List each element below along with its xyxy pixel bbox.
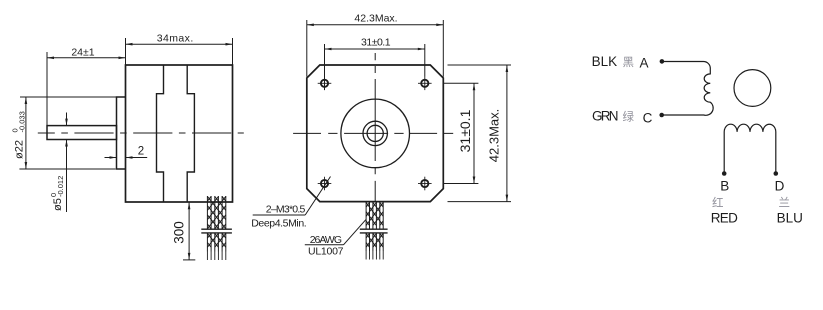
dim 34max line (126, 43, 233, 45)
bundle hatch (left view) (207, 197, 225, 248)
dim 31±0.1 top: extension lines (324, 44, 326, 90)
svg-text:31±0.1: 31±0.1 (361, 37, 391, 49)
dim 31±0.1 top line (325, 48, 425, 50)
centerline (left view) (38, 132, 244, 134)
svg-text:34max.: 34max. (157, 33, 194, 45)
dim ø22 line (25, 97, 27, 169)
motor body outline (side view) (126, 65, 233, 202)
bundle hatch (front view) (366, 203, 383, 248)
bundle break lines (left view) (201, 228, 232, 230)
svg-text:C: C (643, 111, 653, 126)
dim 300 line (188, 202, 190, 260)
terminal dot C (659, 113, 664, 118)
wire ends (front view) (366, 251, 383, 260)
stator/end-cap internal profile right (187, 65, 194, 202)
rotor circle (734, 70, 771, 107)
svg-text:GRN: GRN (592, 109, 619, 124)
dim 34max extension lines (125, 38, 127, 65)
terminal dot D (774, 171, 779, 176)
svg-text:绿: 绿 (623, 110, 635, 124)
front pilot boss (117, 97, 126, 169)
svg-text:2–M3*0.5: 2–M3*0.5 (266, 204, 306, 216)
mounting hole BR (421, 180, 428, 187)
svg-text:2: 2 (138, 146, 144, 158)
pilot boss circle Ø22 (341, 99, 410, 168)
svg-text:B: B (720, 178, 729, 193)
dim text 42.3Max right (rotated) (486, 109, 501, 162)
svg-text:红: 红 (712, 197, 724, 210)
svg-text:A: A (640, 56, 649, 71)
mounting hole TL (321, 80, 328, 87)
square flange outline with chamfers (307, 65, 444, 202)
bundle break lines (front view) (360, 228, 388, 230)
svg-text:BLK: BLK (592, 54, 618, 69)
dim 42.3Max top: extension lines (306, 20, 308, 77)
dim 42.3Max right line (506, 65, 508, 202)
svg-text:ø22: ø22 (13, 140, 25, 159)
svg-text:-0.033: -0.033 (18, 111, 27, 132)
mounting hole BL (321, 180, 328, 187)
dim ø22 extension lines (20, 96, 117, 98)
dim text 300 (rotated) (172, 221, 187, 244)
dim 300 bottom extension (183, 259, 195, 261)
mounting hole TR (421, 80, 428, 87)
dim 2 (boss thickness) arrows (105, 157, 117, 159)
svg-text:UL1007: UL1007 (308, 246, 344, 258)
svg-text:BLU: BLU (777, 210, 803, 225)
svg-text:300: 300 (172, 221, 187, 244)
dim text 31±0.1 right (rotated) (457, 109, 473, 152)
svg-text:D: D (775, 178, 785, 193)
terminal dot B (722, 171, 727, 176)
svg-text:31±0.1: 31±0.1 (457, 109, 473, 152)
wire bundle (front view) (366, 202, 383, 251)
coil B-D (phase 2) (724, 124, 776, 173)
terminal dot A (660, 59, 665, 64)
svg-text:Deep4.5Min.: Deep4.5Min. (251, 217, 307, 229)
centerline horizontal (293, 132, 453, 134)
dim text ø22 0/-0.033 (rotated) (11, 111, 27, 159)
svg-text:-0.012: -0.012 (56, 176, 65, 197)
shaft (47, 126, 117, 140)
dim 42.3Max top line (307, 24, 444, 26)
dim text ø5 0/-0.012 (rotated) (49, 176, 65, 211)
coil A-C (phase 1) (662, 62, 713, 116)
wire ends (left view) (207, 252, 225, 261)
dim 24±1 extension line (46, 52, 48, 126)
svg-text:24±1: 24±1 (71, 47, 94, 59)
shaft circle Ø5 (367, 125, 383, 141)
svg-text:黑: 黑 (623, 56, 635, 69)
dim ø5 arrows (66, 113, 68, 126)
centerline vertical (374, 53, 376, 202)
svg-text:42.3Max.: 42.3Max. (486, 109, 501, 162)
wire bundle (left view) (207, 196, 225, 252)
svg-text:ø5: ø5 (52, 198, 64, 211)
dim 31±0.1 right: extension lines (444, 82, 478, 84)
leader 2-M3 (253, 214, 306, 216)
stator/end-cap internal profile left (157, 65, 164, 202)
svg-text:兰: 兰 (779, 197, 791, 210)
svg-text:RED: RED (711, 210, 738, 225)
dim 31±0.1 right line (473, 83, 475, 183)
svg-text:42.3Max.: 42.3Max. (354, 13, 397, 25)
leader 26AWG (305, 244, 344, 246)
shaft boss circle (363, 121, 387, 145)
svg-text:26AWG: 26AWG (310, 234, 342, 246)
dim 24±1 line (47, 57, 126, 59)
dim 42.3Max right: extension lines (448, 64, 512, 66)
